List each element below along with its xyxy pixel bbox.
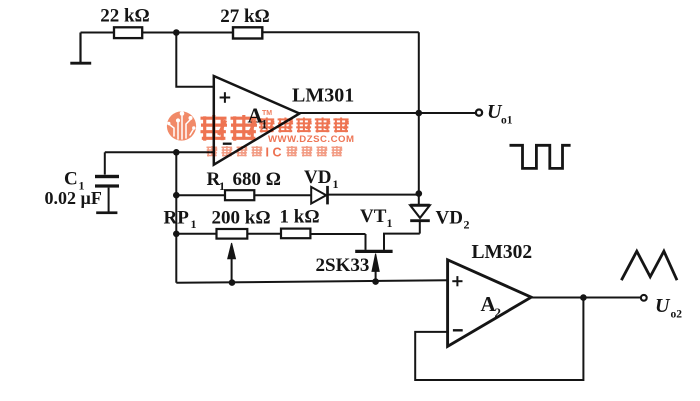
wire R1 row left: [176, 194, 225, 196]
svg-text:1: 1: [387, 216, 393, 230]
ground: [70, 33, 91, 64]
terminal Uo2: [641, 295, 647, 301]
node junction top: [173, 29, 180, 36]
svg-text:U: U: [655, 295, 671, 317]
transistor VT1 gate arrow: [372, 254, 379, 282]
transistor VT1: [355, 234, 420, 252]
potentiometer RP1 wiper arrow: [228, 243, 236, 283]
svg-text:2: 2: [495, 305, 502, 320]
label R1 value: [207, 169, 281, 193]
node junction C1: [173, 149, 180, 156]
label VD1: [304, 167, 339, 191]
op-amp A2 plus sign: [452, 276, 462, 286]
node junction output U1: [416, 110, 423, 117]
op-amp A1 plus sign: [220, 92, 231, 103]
wire left rail vertical: [175, 152, 177, 282]
wire right vertical upper: [418, 32, 420, 113]
wire inverting input row U1: [105, 151, 214, 153]
node junction output U2: [580, 294, 587, 301]
label RP1 value: [164, 207, 271, 231]
node junction RP1 arrow: [229, 279, 236, 286]
capacitor C1: [95, 152, 119, 214]
resistor 22 k: [114, 27, 142, 38]
wire RP1 row left: [176, 233, 216, 235]
op-amp A2 minus sign: [453, 329, 463, 331]
watermark brand characters: [201, 110, 273, 141]
triangle wave symbol: [621, 251, 677, 280]
wire top rail mid: [142, 32, 233, 34]
label VD2: [436, 207, 470, 231]
svg-text:1: 1: [333, 177, 339, 191]
diode VD1: [311, 186, 327, 205]
wire RP1 to R 1k: [247, 233, 281, 235]
wire bottom rail: [176, 280, 447, 283]
node junction VD2 top: [416, 190, 423, 197]
wire output row U1: [300, 112, 476, 114]
svg-text:IC: IC: [266, 145, 286, 159]
label A2: [481, 292, 502, 320]
wire VD1 to node: [328, 194, 419, 196]
node junction RP1 row: [173, 231, 180, 238]
wire right vertical mid: [418, 113, 420, 205]
watermark slogan: [207, 145, 343, 159]
watermark logo circle: [167, 111, 196, 140]
svg-text:C: C: [64, 169, 78, 190]
terminal Uo1: [476, 110, 482, 116]
svg-text:2: 2: [464, 217, 470, 231]
diode VD2: [410, 205, 430, 233]
potentiometer RP1: [217, 229, 248, 239]
svg-text:2SK33: 2SK33: [316, 255, 370, 276]
wire R1 to VD1: [254, 194, 311, 196]
resistor 27 k: [233, 27, 262, 38]
label A1: [248, 104, 268, 132]
svg-text:VT: VT: [360, 206, 387, 227]
square wave symbol: [510, 145, 571, 168]
svg-text:VD: VD: [304, 167, 331, 188]
svg-text:1: 1: [191, 217, 197, 231]
svg-text:200 kΩ: 200 kΩ: [212, 207, 271, 228]
wire to noninverting input of U1: [176, 33, 214, 87]
svg-text:27 kΩ: 27 kΩ: [220, 6, 270, 27]
resistor R1 680: [225, 190, 254, 200]
label VT1: [360, 206, 393, 230]
svg-text:0.02 µF: 0.02 µF: [45, 188, 102, 208]
wire 1k to VT1: [310, 233, 365, 235]
svg-text:1 kΩ: 1 kΩ: [280, 207, 320, 228]
svg-text:WWW.DZSC.COM: WWW.DZSC.COM: [268, 134, 354, 145]
watermark site name characters: [259, 118, 349, 133]
label Uo2: [655, 295, 682, 321]
op-amp A2: [448, 260, 532, 347]
svg-text:LM301: LM301: [292, 85, 354, 107]
svg-text:LM302: LM302: [472, 242, 533, 263]
svg-text:VD: VD: [436, 207, 463, 228]
svg-text:o2: o2: [671, 308, 683, 320]
node junction R1 row: [173, 192, 180, 199]
wire output row U2: [531, 297, 641, 299]
svg-text:680 Ω: 680 Ω: [233, 169, 281, 190]
svg-text:22 kΩ: 22 kΩ: [100, 6, 150, 27]
svg-text:o1: o1: [501, 115, 513, 127]
wire feedback loop: [415, 298, 583, 380]
wire top rail left: [81, 32, 115, 34]
svg-text:1: 1: [219, 179, 225, 193]
op-amp A1 minus sign: [223, 143, 232, 145]
label Uo1: [487, 101, 513, 127]
op-amp A1: [214, 76, 300, 165]
label C1: [64, 169, 85, 193]
resistor 1 k: [281, 229, 310, 239]
node junction gate: [372, 278, 379, 285]
wire top rail right: [262, 31, 419, 33]
svg-text:RP: RP: [164, 207, 190, 228]
svg-text:TM: TM: [262, 110, 272, 117]
